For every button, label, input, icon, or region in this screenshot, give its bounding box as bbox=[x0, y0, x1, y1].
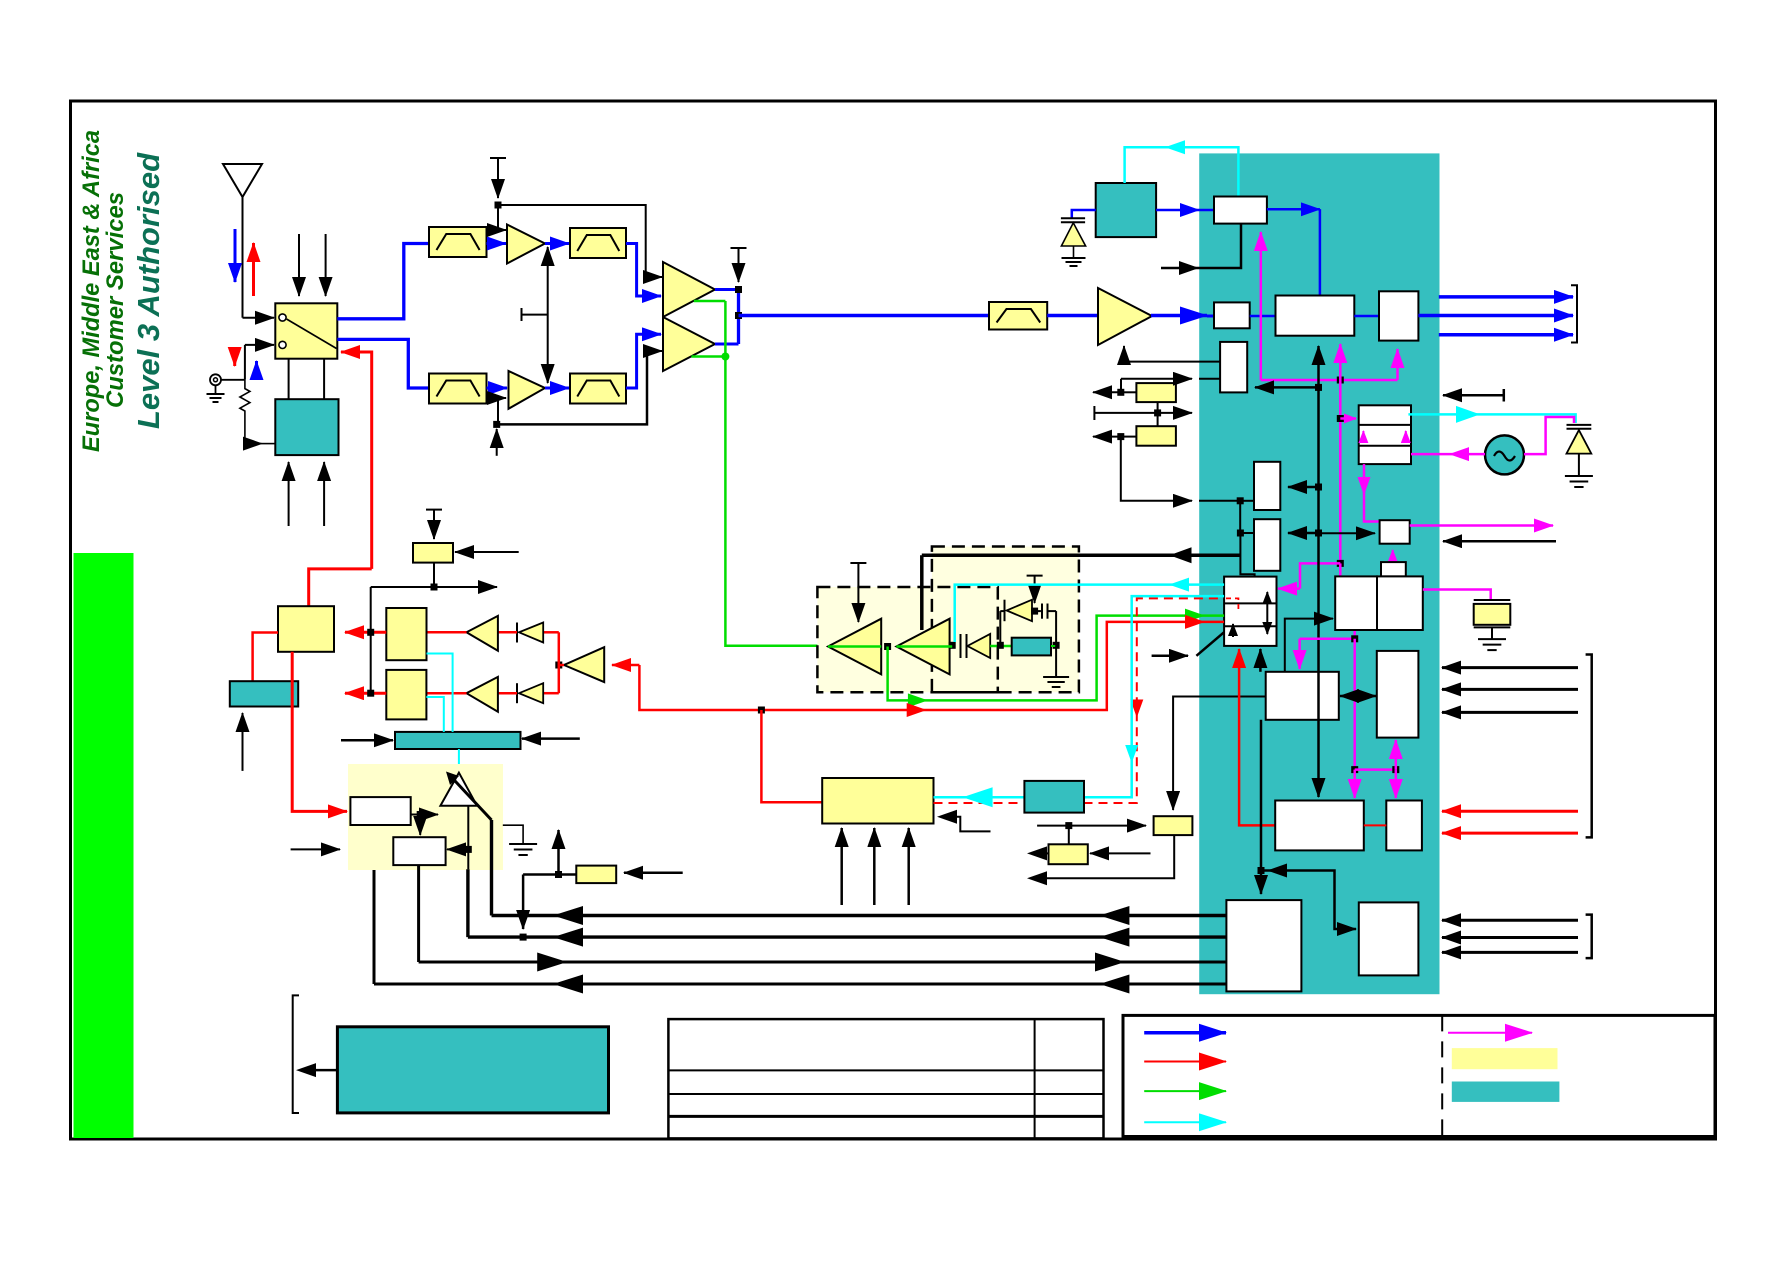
junction lower feed bbox=[493, 421, 500, 428]
resistor R1 bbox=[240, 380, 250, 442]
arrow into detector from below bbox=[242, 713, 244, 771]
divider box I bbox=[1381, 562, 1406, 576]
TCXO reference box bbox=[1096, 183, 1156, 237]
wire to register C bbox=[1240, 500, 1254, 502]
junction O Q bbox=[1258, 867, 1265, 874]
junction red TX bbox=[758, 707, 765, 714]
wire transistor down bbox=[467, 806, 469, 870]
IF buffer box bbox=[1214, 302, 1250, 328]
ground VCO bbox=[1055, 645, 1057, 677]
serial bus vertical line bbox=[1317, 346, 1320, 797]
AGC box bbox=[1220, 342, 1247, 393]
junction sync bbox=[431, 584, 438, 591]
blue combiner output wires bbox=[715, 290, 739, 345]
buffer module background bbox=[817, 587, 997, 692]
blue RX output line Q bbox=[1418, 314, 1573, 318]
big logic box Q bbox=[1226, 900, 1301, 991]
magenta junction at mux bbox=[1337, 560, 1344, 567]
blue wire switch to BPF1 bbox=[337, 244, 429, 319]
mux internal red dash bbox=[1226, 598, 1238, 612]
magenta crystal wire bbox=[1423, 590, 1491, 601]
cyan mod wire to VCO bbox=[955, 585, 1224, 642]
red wire to PA driver top bbox=[309, 569, 372, 606]
ground crystal bbox=[1478, 639, 1506, 650]
IF amplifier bbox=[1098, 288, 1152, 345]
red wire PA driver to PA module bbox=[292, 652, 347, 812]
magenta osc to varactor bbox=[1524, 417, 1574, 454]
supply wire horizontal bbox=[1037, 825, 1146, 827]
blue wire switch to BPF3 bbox=[337, 339, 429, 388]
bus line 3 riser bbox=[417, 865, 420, 962]
legend magenta arrow bbox=[1448, 1032, 1532, 1034]
wire O down to Q bbox=[1260, 720, 1263, 894]
green node bbox=[721, 353, 729, 361]
regulator pass transistor bbox=[440, 773, 477, 806]
junction supply yellow bbox=[1065, 822, 1072, 829]
magenta arrow I to H bbox=[1392, 550, 1394, 561]
blue wire demod to output bbox=[1354, 315, 1379, 318]
counter timer box P bbox=[1377, 651, 1419, 738]
cyan TX mod wire bbox=[934, 596, 1225, 797]
magenta PLL wire up to divider bbox=[1260, 232, 1263, 380]
legend divider bbox=[1441, 1015, 1443, 1136]
svg-text:Level 3 Authorised: Level 3 Authorised bbox=[131, 152, 166, 429]
box G internal arrows bbox=[1362, 431, 1364, 443]
varactor branch bbox=[1000, 600, 1056, 646]
magenta TX VCO control out bbox=[1410, 524, 1553, 527]
junction register feed C bbox=[1237, 497, 1244, 504]
junction serial to reg C bbox=[1315, 484, 1322, 491]
red arrow mixer upper out bbox=[345, 631, 386, 634]
counter box O bbox=[1266, 672, 1339, 720]
divider amp upper bbox=[467, 616, 498, 651]
magenta arrow into counter O bbox=[1300, 630, 1355, 639]
cyan mod arrowhead bbox=[1169, 578, 1189, 592]
arrow serial to AGC box bbox=[1255, 386, 1319, 389]
arrow serial to reg C bbox=[1288, 486, 1319, 489]
magenta arrow into RX output stage bbox=[1396, 349, 1399, 380]
red arrow into RX divider amp bbox=[612, 664, 639, 667]
supply tap VCO buffer bbox=[850, 563, 866, 622]
arrowhead into IC edge bbox=[1179, 261, 1199, 275]
varactor diode at TCXO bbox=[1061, 223, 1085, 246]
RF IC block bbox=[1199, 153, 1439, 994]
wire connector to switch pin2 bbox=[245, 345, 274, 380]
junction latch B bbox=[1117, 433, 1124, 440]
magenta arrow to box P bbox=[1395, 740, 1398, 770]
node VCO right bbox=[1053, 642, 1060, 649]
blue main RX line bbox=[739, 314, 990, 318]
legend box bbox=[1123, 1015, 1715, 1136]
supply tap at combiner output bbox=[731, 248, 747, 282]
legend red arrow bbox=[1144, 1061, 1226, 1063]
spare parts box bbox=[337, 1027, 608, 1113]
wire switch to RF block 1 bbox=[288, 359, 290, 400]
bus line 2 arrowheads bbox=[553, 928, 583, 947]
RF power block bbox=[275, 399, 338, 455]
blue arrow amp to BPF4 bbox=[545, 387, 569, 390]
green TX arrowhead at mux bbox=[1185, 609, 1205, 623]
legend yellow swatch bbox=[1452, 1048, 1558, 1069]
PA driver box bbox=[278, 606, 334, 652]
double arrow O to P bbox=[1340, 695, 1376, 698]
junction upper feed bbox=[495, 202, 502, 209]
arrow to mux corner bbox=[1152, 655, 1188, 658]
bus line 1 bbox=[492, 914, 1227, 917]
black arrow into IC top right bbox=[1443, 394, 1504, 397]
magenta wire into counter K bbox=[1339, 563, 1342, 576]
junction black on red lower bbox=[367, 690, 374, 697]
blue arrow BPF3 to amp bbox=[487, 387, 508, 390]
svg-text:Customer Services: Customer Services bbox=[102, 192, 129, 408]
cyan wire mixer upper to bar bbox=[427, 654, 453, 732]
arrow ref box out bbox=[1034, 852, 1049, 854]
red TX arrowhead at mux bbox=[1185, 615, 1205, 629]
node VCO out bbox=[949, 642, 956, 649]
bias arrow up into junction bbox=[496, 429, 498, 456]
data wire into registers bbox=[1121, 437, 1192, 501]
control arrow into RF block 2 bbox=[323, 462, 325, 526]
blue wire buffer to demod bbox=[1250, 315, 1276, 318]
junction magenta to prescaler bbox=[1337, 415, 1344, 422]
node combiner output bbox=[735, 286, 742, 293]
demodulator box bbox=[1276, 296, 1355, 336]
red arrow mixer lower out bbox=[345, 692, 386, 695]
mode mux box bbox=[1224, 577, 1276, 646]
register C box bbox=[1254, 462, 1280, 510]
antenna bbox=[223, 164, 262, 318]
control arrow into RF block 1 bbox=[288, 462, 290, 526]
red TX wire to mux bbox=[639, 622, 1224, 710]
power control bar bbox=[395, 732, 521, 749]
bracket spare parts bbox=[293, 995, 299, 1113]
legend blue arrow bbox=[1144, 1031, 1226, 1035]
magenta osc to G bbox=[1411, 453, 1485, 456]
magenta PLL horizontal wire bbox=[1261, 379, 1398, 382]
VCO coupling capacitor bbox=[960, 634, 962, 658]
diode lower bbox=[498, 683, 543, 703]
arrow supply up bbox=[557, 830, 560, 875]
junction mux feed bbox=[1237, 530, 1244, 537]
TX red up arrow bbox=[252, 243, 255, 296]
arrow into reg2 right bbox=[447, 848, 468, 850]
reference divider box bbox=[1214, 197, 1267, 224]
arrow into PA module left bbox=[291, 848, 340, 850]
VCO module background bbox=[932, 547, 1079, 693]
arrow into supply filter bbox=[624, 872, 683, 875]
arrow latch A out bbox=[1093, 391, 1121, 393]
VCO varactor right bbox=[1567, 425, 1592, 476]
wire TX enable into VCO buffer bbox=[920, 555, 924, 630]
cyan wire G to varactor bbox=[1408, 414, 1575, 423]
logic box R bbox=[1359, 902, 1419, 975]
VCO buffer amp 1 bbox=[828, 619, 881, 675]
sync box bbox=[413, 543, 453, 563]
port bracket R bbox=[1586, 915, 1592, 959]
wire supply filter left bbox=[523, 873, 576, 876]
red wire into mixer upper bbox=[427, 631, 467, 634]
black wire into divider bbox=[1161, 224, 1241, 268]
cyan filter box bbox=[1024, 781, 1084, 813]
drawing frame border bbox=[71, 101, 1716, 1139]
bus line 4 arrowheads bbox=[553, 975, 583, 994]
bus line 4 riser bbox=[373, 870, 376, 984]
port arrows into R bbox=[1442, 919, 1578, 922]
port bracket right bbox=[1586, 655, 1592, 838]
arrow spare parts out bbox=[303, 1069, 337, 1072]
bus line 1 risers bbox=[490, 820, 493, 916]
junction supply bbox=[555, 871, 562, 878]
junction latch A bbox=[1117, 389, 1124, 396]
magenta main divider wire bbox=[1339, 380, 1342, 563]
center control line bbox=[522, 247, 548, 383]
switch control line 1 bbox=[298, 234, 300, 296]
junction reg internal bbox=[417, 811, 424, 818]
ground at connector bbox=[207, 385, 225, 402]
wire latch A to latch B bbox=[1157, 402, 1159, 426]
combiner amp upper bbox=[663, 262, 715, 317]
red port arrows into N bbox=[1442, 810, 1578, 813]
charge pump box G bbox=[1359, 405, 1411, 464]
TX enable thick line bbox=[922, 553, 1241, 557]
magenta tee wire bbox=[1355, 768, 1396, 771]
wire counter O to K bbox=[1285, 619, 1333, 672]
detector box bbox=[230, 681, 298, 706]
blue wire BPF4 to combiner bbox=[626, 334, 661, 388]
band filter BPF3 bbox=[429, 374, 487, 404]
supply tap at sync box bbox=[426, 510, 442, 539]
lower feedback wire bbox=[497, 351, 647, 424]
junction clock bbox=[1154, 409, 1161, 416]
wire switch to RF block 2 bbox=[323, 359, 325, 400]
legend green arrow bbox=[1144, 1090, 1226, 1092]
red wire to PA input bbox=[761, 710, 822, 802]
arrow latch B out bbox=[1093, 436, 1121, 438]
bias arrow into IF amp bbox=[1123, 346, 1125, 362]
arrow into power bar right bbox=[522, 737, 580, 740]
cyan wire mixer lower to bar bbox=[426, 697, 443, 732]
cyan arrowheads TX bbox=[963, 787, 993, 807]
diagonal wire to mux corner bbox=[1196, 632, 1224, 656]
red wire lower branch bbox=[543, 692, 559, 695]
ground at TCXO bbox=[1073, 246, 1075, 258]
wire latch B to edge bbox=[1121, 436, 1137, 438]
bus line 2 riser bbox=[466, 869, 469, 937]
wire to register D bbox=[1239, 501, 1241, 533]
regulator adjust arm bbox=[449, 775, 492, 821]
VCO resonator box bbox=[1012, 638, 1051, 656]
register D box bbox=[1254, 519, 1280, 571]
mixer box lower bbox=[386, 670, 426, 720]
bus line 3 arrowheads bbox=[537, 953, 567, 972]
junction magenta low bbox=[1351, 766, 1358, 773]
red wire M to N bbox=[1364, 824, 1387, 826]
wire resonator to node bbox=[1051, 645, 1056, 647]
node buffer bbox=[884, 643, 891, 650]
cyan wire bar to regulator bbox=[458, 749, 460, 773]
RX output stage box bbox=[1379, 291, 1418, 340]
VCO amp bbox=[967, 634, 990, 658]
blue wire divider to synth bbox=[1267, 208, 1320, 211]
antenna switch bbox=[275, 303, 337, 358]
junction magenta PLL bbox=[1337, 377, 1344, 384]
red TX arrowhead mid bbox=[907, 703, 927, 717]
supply tap upper chain bbox=[490, 158, 506, 198]
arrow serial to control H bbox=[1319, 532, 1376, 534]
cyan AFC arrowhead bbox=[1165, 140, 1185, 154]
decoupling capacitor bbox=[1061, 210, 1096, 222]
reference oscillator bbox=[1485, 435, 1524, 474]
green wire VCO internal bbox=[828, 645, 1012, 648]
test connector bbox=[210, 374, 245, 385]
blue arrow TCXO to IC bbox=[1156, 209, 1199, 212]
junction magenta counter bbox=[1351, 635, 1358, 642]
yellow latch A bbox=[1136, 383, 1176, 402]
LNA amplifier lower bbox=[509, 371, 546, 409]
magenta arrow to register M bbox=[1353, 770, 1356, 798]
branch arrowhead at junction bbox=[1267, 864, 1287, 878]
small blue up arrow bbox=[255, 361, 258, 379]
VCO module dashed border bbox=[932, 547, 1079, 693]
cyan arrowhead G bbox=[1456, 406, 1480, 423]
sync distribution wire bbox=[371, 563, 497, 694]
wire bias to AGC box bbox=[1124, 361, 1220, 363]
TX modulator input arrows bbox=[840, 828, 843, 905]
red dashed arrowhead bbox=[1130, 700, 1143, 718]
supply tap varactor bbox=[1027, 576, 1043, 603]
blue arrow IF amp to IC bbox=[1151, 314, 1207, 318]
green wire to VCO bbox=[725, 301, 822, 646]
svg-text:Europe, Middle East & Africa: Europe, Middle East & Africa bbox=[78, 130, 105, 452]
arrow supply down to bus bbox=[522, 875, 525, 930]
diode upper bbox=[498, 623, 543, 643]
arrow into power bar left bbox=[341, 739, 393, 742]
counter box K bbox=[1335, 576, 1377, 630]
magenta arrow to register N bbox=[1395, 770, 1398, 798]
register N box bbox=[1386, 801, 1422, 851]
magenta wire down bbox=[1353, 639, 1356, 770]
VCO buffer amp 2 bbox=[896, 619, 949, 675]
wire reg1 to transistor bbox=[411, 814, 438, 816]
node RX divider bbox=[555, 662, 562, 669]
legend teal swatch bbox=[1452, 1082, 1560, 1102]
bus line 3 bbox=[419, 961, 1227, 964]
TX IQ modulator box bbox=[822, 778, 933, 824]
ground varactor right bbox=[1565, 476, 1593, 487]
black wire modulator control bbox=[944, 817, 991, 832]
red dashed TX feedback bbox=[934, 598, 1225, 803]
red wire upper branch bbox=[543, 631, 559, 634]
arrow into sync box bbox=[455, 551, 519, 553]
junction supply bus bbox=[520, 934, 527, 941]
combiner amp lower bbox=[663, 317, 715, 371]
red wire divider split bbox=[559, 632, 564, 693]
reference yellow box bbox=[1049, 844, 1088, 864]
strobe wire into IC bbox=[1120, 379, 1122, 393]
bus line 4 bbox=[374, 983, 1226, 986]
blue arrow BPF1 to amp bbox=[487, 242, 507, 245]
green TX wire to mux bbox=[888, 616, 1225, 701]
arrow into ref box right bbox=[1090, 852, 1151, 854]
red wire into mixer lower bbox=[426, 692, 466, 695]
wire resistor to RF block bbox=[245, 443, 262, 445]
mux internal small arrow bbox=[1232, 624, 1234, 637]
blue arrow amp to BPF2 bbox=[545, 242, 569, 245]
magenta arrow into prescaler bbox=[1340, 417, 1356, 420]
red TX input arrow to switch bbox=[341, 352, 372, 569]
counter box J bbox=[1377, 576, 1423, 630]
mixer box upper bbox=[386, 608, 426, 660]
status yellow box bbox=[1154, 816, 1193, 835]
TX enable arrowhead bbox=[1170, 547, 1192, 563]
wire mux to status box bbox=[1173, 697, 1265, 811]
junction serial to reg D bbox=[1315, 530, 1322, 537]
feedback wire upper bbox=[498, 205, 646, 277]
buffer module dashed border bbox=[817, 587, 997, 692]
phase detector box H bbox=[1380, 520, 1410, 544]
bias arrow into upper LNA bbox=[497, 205, 499, 230]
green revision sidebar bbox=[74, 553, 134, 1138]
arrow serial to reg D bbox=[1288, 532, 1319, 535]
green feedback stubs bbox=[691, 301, 725, 357]
LNA amplifier upper bbox=[507, 225, 545, 264]
band filter BPF4 bbox=[570, 374, 626, 404]
cyan AFC wire bbox=[1125, 147, 1239, 196]
wire latch A to edge bbox=[1121, 391, 1137, 393]
black arrow counter to mux bbox=[1259, 649, 1262, 672]
wire antenna to switch bbox=[243, 317, 275, 319]
junction black on red upper bbox=[367, 629, 374, 636]
bus line 1 arrowheads bbox=[553, 906, 583, 925]
bus line 2 bbox=[468, 935, 1227, 938]
magenta arrow into demod bbox=[1339, 344, 1342, 380]
junction serial to AGC bbox=[1315, 384, 1322, 391]
blue RX output line ref bbox=[1439, 333, 1573, 337]
regulator box 2 bbox=[393, 837, 445, 865]
blue wire BPF5 to IF amp bbox=[1047, 314, 1098, 318]
branch wire to R bbox=[1261, 871, 1356, 930]
RX output bracket bbox=[1571, 285, 1577, 342]
notes table bbox=[668, 1019, 1103, 1138]
bias arrow into lower LNA bbox=[497, 398, 499, 424]
red arrow mod to mux bbox=[1239, 649, 1275, 825]
magenta arrow into mode mux bbox=[1300, 563, 1340, 588]
crystal bbox=[1474, 600, 1511, 639]
band filter BPF2 bbox=[570, 228, 626, 258]
clock tap line bbox=[1094, 406, 1192, 420]
mux internal arrow bbox=[1266, 592, 1268, 634]
wire status box down bbox=[1034, 835, 1174, 878]
ground PA module bbox=[503, 825, 523, 844]
regulator box 1 bbox=[350, 797, 410, 825]
PA regulator module bbox=[348, 764, 503, 870]
node varactor bbox=[997, 642, 1004, 649]
wire junction to ref box bbox=[1068, 826, 1070, 845]
black arrow into IC mid right bbox=[1443, 540, 1556, 543]
green TX arrowhead mid bbox=[908, 693, 928, 707]
arrow reg1 to reg2 bbox=[419, 815, 421, 836]
red wire PA driver to detector bbox=[253, 633, 278, 682]
switch control line 2 bbox=[325, 234, 327, 296]
wire register D to mux bbox=[1240, 533, 1254, 577]
port arrows into P bbox=[1442, 666, 1578, 669]
RX divider amp bbox=[564, 647, 604, 682]
yellow latch B bbox=[1136, 426, 1176, 446]
RX blue down arrow bbox=[234, 229, 237, 282]
small red down arrow bbox=[233, 348, 236, 366]
legend cyan arrow bbox=[1144, 1121, 1226, 1123]
divider amp lower bbox=[467, 677, 498, 712]
